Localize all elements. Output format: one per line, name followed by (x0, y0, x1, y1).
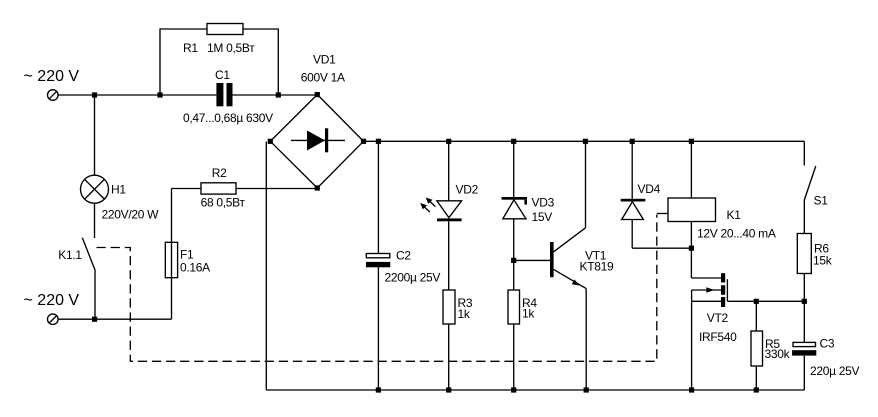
svg-text:1k: 1k (522, 307, 535, 321)
svg-text:~ 220 V: ~ 220 V (24, 68, 80, 85)
svg-text:12V 20...40 mA: 12V 20...40 mA (697, 227, 776, 241)
svg-text:VT2: VT2 (707, 311, 729, 325)
svg-text:68 0,5Вт: 68 0,5Вт (201, 195, 246, 209)
svg-text:VD2: VD2 (456, 183, 479, 197)
svg-text:600V 1A: 600V 1A (301, 71, 345, 85)
svg-text:IRF540: IRF540 (699, 330, 737, 344)
svg-text:C3: C3 (820, 337, 835, 351)
svg-text:K1: K1 (727, 208, 742, 222)
svg-text:1M 0,5Вт: 1M 0,5Вт (207, 41, 255, 55)
svg-text:K1.1: K1.1 (58, 248, 82, 262)
svg-text:0,47...0,68µ 630V: 0,47...0,68µ 630V (183, 111, 273, 125)
svg-text:220V/20 W: 220V/20 W (102, 207, 160, 221)
svg-text:15k: 15k (813, 253, 833, 267)
svg-text:VD3: VD3 (532, 196, 555, 210)
svg-text:C2: C2 (396, 248, 411, 262)
svg-text:220µ 25V: 220µ 25V (810, 364, 860, 378)
svg-text:~ 220 V: ~ 220 V (24, 292, 80, 309)
svg-text:R1: R1 (183, 41, 198, 55)
svg-text:2200µ 25V: 2200µ 25V (385, 271, 441, 285)
svg-text:R2: R2 (212, 166, 227, 180)
svg-text:VD4: VD4 (638, 182, 661, 196)
svg-text:1k: 1k (458, 307, 471, 321)
svg-text:VD1: VD1 (313, 53, 336, 67)
svg-text:F1: F1 (180, 247, 194, 261)
svg-text:S1: S1 (814, 194, 829, 208)
svg-text:KT819: KT819 (580, 259, 614, 273)
svg-text:15V: 15V (532, 210, 553, 224)
svg-text:H1: H1 (111, 183, 126, 197)
svg-text:330k: 330k (765, 347, 791, 361)
svg-text:C1: C1 (215, 68, 230, 82)
svg-text:0.16A: 0.16A (180, 261, 210, 275)
